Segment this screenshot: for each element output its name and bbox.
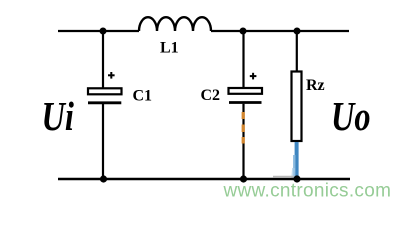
svg-text:Uo: Uo — [331, 93, 371, 138]
plus sign C2 — [250, 73, 257, 80]
wire C2 lower — [242, 104, 244, 179]
node junction top C2 — [240, 28, 247, 35]
faint gray dash near Rz junction — [273, 176, 294, 178]
wire C1 upper — [102, 31, 104, 89]
wire Rz upper — [296, 31, 298, 72]
node junction top Rz — [294, 28, 301, 35]
svg-text:L1: L1 — [160, 40, 179, 57]
capacitor C1 — [88, 88, 122, 103]
wire C2 upper — [242, 31, 244, 89]
inductor L1 — [139, 17, 211, 31]
plus sign C1 — [108, 72, 115, 79]
wire top rail right segment — [211, 30, 349, 32]
wire top rail left segment — [58, 30, 139, 32]
wire bottom rail — [58, 178, 350, 180]
svg-text:C1: C1 — [133, 88, 153, 105]
watermark artifact orange dashes on C2 wire — [242, 112, 245, 144]
svg-text:Ui: Ui — [42, 93, 75, 138]
svg-text:C2: C2 — [201, 87, 221, 104]
node junction bottom C1 — [100, 175, 107, 182]
svg-text:www.cntronics.com: www.cntronics.com — [223, 181, 392, 202]
node junction bottom Rz — [293, 175, 300, 182]
capacitor C2 — [229, 88, 263, 103]
node junction bottom C2 — [240, 175, 247, 182]
resistor Rz — [292, 72, 302, 142]
svg-text:Rz: Rz — [306, 77, 325, 94]
node junction top left — [100, 28, 107, 35]
wire C1 lower — [102, 104, 104, 179]
wire Rz lower — [296, 141, 298, 179]
watermark artifact blue streak on Rz wire — [295, 142, 299, 178]
